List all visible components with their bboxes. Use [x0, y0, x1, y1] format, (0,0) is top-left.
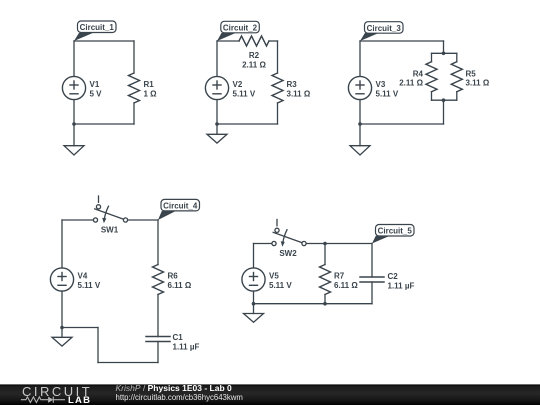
wire down to split: [443, 41, 445, 53]
junction dot: [358, 122, 362, 126]
wire R5 stub top: [456, 53, 458, 61]
wire R6 to C1: [157, 295, 159, 337]
resistor R6: [153, 265, 192, 295]
wire right lower: [277, 103, 279, 124]
svg-text:1.11 µF: 1.11 µF: [388, 282, 415, 291]
footer title line: [116, 383, 233, 393]
wire C2 top: [371, 244, 373, 278]
node label Circuit_2: [217, 21, 259, 41]
svg-text:KrishP / Physics 1E03 - Lab 0: KrishP / Physics 1E03 - Lab 0: [116, 383, 233, 393]
svg-text:V4: V4: [78, 272, 88, 281]
svg-text:Circuit_3: Circuit_3: [367, 24, 402, 33]
svg-text:SW2: SW2: [279, 249, 297, 258]
wire top left: [217, 40, 239, 42]
node label Circuit_5: [372, 225, 414, 244]
wire bottom bar: [432, 99, 457, 101]
resistor R4: [399, 62, 437, 92]
logo CIRCUIT: [22, 384, 92, 399]
svg-text:R3: R3: [287, 80, 298, 89]
svg-text:http://circuitlab.com/cb36hyc6: http://circuitlab.com/cb36hyc643kwm: [116, 393, 243, 402]
svg-text:V2: V2: [233, 80, 243, 89]
wire left upper: [216, 41, 218, 76]
svg-text:Circuit_4: Circuit_4: [163, 202, 198, 211]
svg-text:2.11 Ω: 2.11 Ω: [399, 79, 423, 88]
svg-text:1 Ω: 1 Ω: [144, 89, 158, 98]
wire left of switch: [254, 243, 272, 245]
svg-text:R7: R7: [334, 272, 345, 281]
voltage source V5: [242, 268, 292, 291]
svg-text:3.11 Ω: 3.11 Ω: [287, 89, 311, 98]
wire bottom: [74, 123, 134, 125]
wire right lower: [133, 103, 135, 124]
svg-text:R2: R2: [249, 51, 260, 60]
wire bottom: [217, 123, 278, 125]
logo LAB: [68, 395, 91, 405]
svg-text:5.11 V: 5.11 V: [269, 281, 292, 290]
wire top: node to R1: [74, 40, 134, 42]
svg-text:R4: R4: [413, 69, 424, 78]
wire bottom: [360, 123, 444, 125]
node label Circuit_3: [360, 22, 403, 41]
ground: [350, 124, 370, 155]
svg-text:R1: R1: [144, 80, 155, 89]
node label Circuit_4: [158, 199, 200, 220]
wire R4 stub top: [431, 53, 433, 61]
voltage source V1: [62, 76, 102, 99]
wire C2 bottom: [371, 282, 373, 304]
voltage source V3: [348, 76, 398, 99]
wire R7 stub: [324, 244, 326, 265]
wire left of switch: [62, 219, 93, 221]
svg-text:1.11 µF: 1.11 µF: [173, 343, 200, 352]
wire left down: [253, 244, 255, 268]
junction dot top: [323, 242, 327, 246]
wire R4 stub bottom: [431, 92, 433, 101]
ground: [64, 124, 84, 155]
svg-text:R5: R5: [466, 69, 477, 78]
wire bottom: [254, 303, 373, 305]
svg-text:C1: C1: [173, 333, 184, 342]
ground: [244, 304, 264, 323]
wire left upper: [73, 41, 75, 76]
resistor R3: [272, 73, 311, 103]
resistor R7: [320, 265, 359, 295]
wire below V4: [61, 291, 63, 327]
capacitor C1: [146, 333, 199, 351]
switch SW2: [272, 220, 306, 258]
wire jog left: [62, 327, 98, 329]
wire node down to R6: [157, 220, 159, 265]
wire bottom horizontal: [98, 362, 158, 364]
wire R5 stub bottom: [456, 92, 458, 101]
wire top right: [269, 40, 278, 42]
junction dot: [215, 122, 219, 126]
wire down right: [443, 100, 445, 124]
wire left lower: [73, 100, 75, 124]
footer url line: [116, 393, 243, 402]
footer bar: [0, 384, 540, 405]
wire left lower: [216, 100, 218, 124]
svg-text:5.11 V: 5.11 V: [233, 89, 256, 98]
svg-text:5 V: 5 V: [90, 89, 103, 98]
svg-text:2.11 Ω: 2.11 Ω: [242, 60, 266, 69]
ground: [52, 328, 72, 347]
junction dot: [60, 326, 64, 330]
logo resistor-diode glyph: [21, 397, 65, 403]
svg-text:5.11 V: 5.11 V: [376, 89, 399, 98]
wire right of switch: [306, 243, 372, 245]
resistor R1: [129, 73, 158, 103]
wire jog up: [97, 328, 99, 363]
resistor R2: [239, 36, 269, 69]
wire below V5: [253, 291, 255, 304]
wire below C1: [157, 342, 159, 363]
node label Circuit_1: [74, 21, 116, 41]
junction dot bottom: [323, 302, 327, 306]
junction dot left: [252, 302, 256, 306]
wire top: [360, 40, 444, 42]
svg-text:V5: V5: [269, 272, 279, 281]
wire right upper: [277, 41, 279, 73]
svg-text:LAB: LAB: [68, 395, 91, 405]
svg-text:Circuit_2: Circuit_2: [223, 24, 258, 33]
svg-text:SW1: SW1: [101, 225, 119, 234]
svg-text:5.11 V: 5.11 V: [78, 281, 101, 290]
voltage source V4: [50, 268, 100, 291]
svg-text:3.11 Ω: 3.11 Ω: [466, 79, 490, 88]
svg-text:V3: V3: [376, 80, 386, 89]
svg-text:6.11 Ω: 6.11 Ω: [168, 281, 192, 290]
junction dot bottom: [442, 98, 446, 102]
wire right of switch: [128, 219, 158, 221]
voltage source V2: [205, 76, 255, 99]
svg-text:C2: C2: [388, 272, 399, 281]
junction dot: [72, 122, 76, 126]
svg-text:R6: R6: [168, 272, 179, 281]
wire left down: [61, 220, 63, 268]
wire right upper: [133, 41, 135, 73]
capacitor C2: [360, 272, 414, 290]
resistor R5: [451, 62, 490, 92]
svg-text:Circuit_5: Circuit_5: [378, 227, 413, 236]
wire top bar: [432, 52, 457, 54]
wire left lower: [359, 100, 361, 124]
junction dot top: [442, 52, 446, 56]
ground: [207, 125, 227, 144]
wire R7 bottom: [324, 295, 326, 304]
svg-text:6.11 Ω: 6.11 Ω: [334, 281, 358, 290]
svg-text:Circuit_1: Circuit_1: [80, 23, 115, 32]
switch SW1: [93, 196, 127, 234]
wire left upper: [359, 41, 361, 76]
svg-text:V1: V1: [90, 80, 100, 89]
